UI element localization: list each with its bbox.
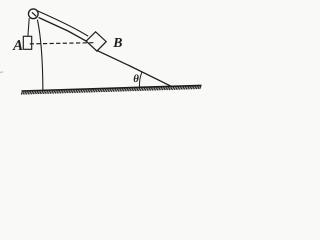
svg-text:A: A: [12, 38, 23, 54]
svg-text:B: B: [112, 35, 122, 50]
svg-text:θ: θ: [133, 73, 139, 85]
